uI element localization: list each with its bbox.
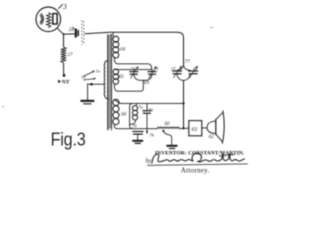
node wire y103.5 (121, 102, 184, 104)
coil 7a (135, 104, 137, 106)
transformer core (108, 34, 112, 130)
svg-text:15: 15 (171, 66, 176, 71)
rheostat 60 (157, 127, 179, 129)
speaker horn (216, 112, 223, 119)
wire to corner (85, 32, 184, 37)
cap 16 (189, 70, 198, 72)
wire box to driver (202, 127, 207, 129)
svg-text:77: 77 (185, 60, 190, 65)
primary (left) winding (104, 61, 108, 99)
capacitor 13 (133, 70, 135, 72)
svg-text:79: 79 (132, 124, 137, 129)
svg-text:66: 66 (121, 113, 127, 118)
rheostat wiper to ground 2 (163, 131, 171, 145)
cap bottoms rejoin (177, 74, 184, 81)
svg-text:7b: 7b (149, 133, 154, 138)
tube lead wire (57, 28, 63, 34)
wire plate to right (top run) (64, 33, 75, 35)
secondary winding 66 (114, 100, 121, 104)
svg-text:by: by (146, 158, 152, 164)
jack 2a (75, 29, 79, 38)
tap switch arms (84, 72, 93, 76)
wire 6b top (114, 68, 151, 70)
svg-text:61: 61 (192, 127, 198, 133)
wire 6b bottom (114, 80, 143, 91)
svg-text:62: 62 (209, 135, 215, 140)
capacitor 14 (151, 70, 153, 72)
tube leader tick (59, 5, 63, 9)
svg-text:17: 17 (68, 53, 74, 58)
dotted panel line (81, 21, 83, 45)
cap 15 (173, 70, 182, 72)
svg-text:Attorney.: Attorney. (181, 167, 210, 175)
capacitor 70 (146, 104, 148, 111)
speck (211, 26, 213, 29)
svg-text:14: 14 (153, 66, 158, 71)
secondary winding 6b (113, 69, 119, 75)
svg-text:70: 70 (149, 107, 154, 112)
tube grid zigzag (47, 13, 51, 28)
tube plate (53, 14, 57, 24)
grid resistor wire (63, 34, 65, 46)
wire to terminal (63, 63, 65, 74)
vertical to box (183, 81, 185, 129)
svg-text:7a: 7a (138, 104, 143, 109)
ground 1 (87, 84, 89, 100)
loop left vertical (130, 103, 133, 128)
secondary winding 6a (113, 32, 114, 37)
trimmer pair 15/16 on right vertical (183, 38, 185, 65)
resistor 17 (61, 47, 66, 63)
svg-text:65: 65 (119, 75, 125, 80)
speaker driver (207, 121, 216, 133)
wire 66 bottom (114, 124, 157, 128)
tube filament (40, 14, 43, 24)
box 61 (189, 121, 202, 136)
vacuum tube V3 envelope (36, 7, 61, 32)
svg-text:2a: 2a (69, 28, 75, 33)
label ANT (58, 79, 70, 85)
svg-text:13: 13 (131, 66, 136, 71)
svg-text:69: 69 (144, 81, 150, 86)
svg-text:INVENTOR: CONSTANT/MARTIN.: INVENTOR: CONSTANT/MARTIN. (155, 151, 245, 157)
wire rheostat to box (180, 127, 189, 130)
svg-text:16: 16 (193, 66, 198, 71)
wire 6a bottom (114, 57, 151, 70)
left edge speck (2, 106, 4, 108)
svg-text:3: 3 (62, 2, 67, 11)
svg-text:1b: 1b (81, 75, 86, 80)
svg-text:NT: NT (62, 79, 70, 85)
svg-text:Fig.3: Fig.3 (51, 128, 86, 149)
svg-text:64: 64 (120, 48, 126, 53)
svg-text:60: 60 (165, 122, 170, 127)
signature (152, 153, 245, 163)
svg-text:1a: 1a (95, 68, 100, 73)
ground wire with junction (88, 83, 105, 85)
